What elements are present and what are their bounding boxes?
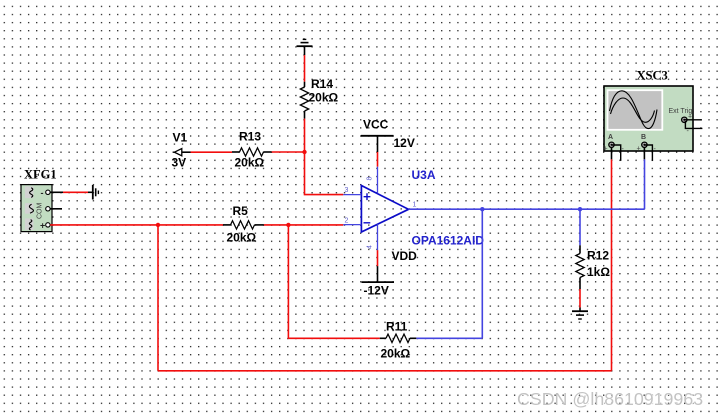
wire VCC red segment [377, 152, 379, 167]
svg-text:1kΩ: 1kΩ [587, 265, 610, 279]
svg-text:B: B [641, 134, 646, 141]
wire output [409, 208, 645, 210]
svg-text:CSDN @lh8610919963: CSDN @lh8610919963 [517, 389, 703, 409]
wire ground to R14 [304, 55, 306, 82]
power VDD [362, 249, 418, 298]
resistor R12 [576, 245, 611, 289]
svg-text:+: + [637, 146, 641, 153]
svg-text:A: A [608, 134, 613, 141]
svg-text:4: 4 [367, 245, 374, 249]
resistor R13 [232, 130, 272, 170]
wire up to scope A [611, 159, 613, 370]
svg-text:U3A: U3A [412, 168, 436, 182]
wire bottom horizontal to scope A [158, 370, 612, 372]
node junction output/R12 [578, 207, 582, 211]
function generator XFG1 [21, 168, 57, 232]
wire VDD red segment [377, 250, 379, 266]
svg-text:V1: V1 [173, 131, 188, 145]
wire scope B stub [643, 147, 645, 159]
wire R12 to ground [579, 289, 581, 308]
wire to R12 [579, 209, 581, 245]
svg-text:VDD: VDD [392, 249, 418, 263]
resistor R5 [223, 204, 264, 245]
wire ext trig hooks [684, 119, 702, 121]
svg-text:R11: R11 [386, 320, 408, 334]
wire V1 to R13 [191, 151, 232, 153]
power VCC [361, 118, 415, 153]
svg-text:20kΩ: 20kΩ [309, 91, 339, 105]
wire XFG1 minus to ground (red part) [63, 191, 88, 193]
wire scope A minus hook [612, 145, 621, 161]
svg-text:2: 2 [345, 218, 349, 225]
svg-text:VCC: VCC [363, 118, 389, 132]
svg-text:R5: R5 [233, 204, 249, 218]
node junction R13/R14 [302, 150, 306, 154]
svg-text:-: - [41, 188, 44, 198]
wire output up to scope B [644, 159, 646, 209]
svg-text:XSC3: XSC3 [637, 69, 668, 83]
ground (below R12) [572, 308, 588, 320]
wire feedback up from R11 [481, 209, 483, 338]
svg-text:R14: R14 [311, 77, 333, 91]
wire R13 to node [272, 151, 305, 153]
svg-text:20kΩ: 20kΩ [381, 347, 411, 361]
svg-text:OPA1612AID: OPA1612AID [412, 234, 485, 248]
ground (top, inverted) [297, 39, 313, 55]
wire scope A stub [611, 147, 613, 159]
wire node down to opamp plus [305, 152, 344, 195]
wire R5 to opamp minus [264, 224, 343, 226]
svg-text:3V: 3V [172, 156, 187, 170]
svg-text:R13: R13 [239, 130, 261, 144]
resistor R11 [380, 320, 417, 361]
svg-text:R12: R12 [587, 249, 609, 263]
voltage source arrow V1 [172, 131, 191, 170]
wire XFG1 minus to ground (black part) [50, 191, 63, 193]
wire feedback down [288, 225, 379, 338]
wire scope B minus hook [644, 145, 652, 161]
svg-text:3: 3 [345, 187, 349, 194]
oscilloscope XSC3 [604, 69, 694, 154]
svg-text:+: + [40, 221, 45, 231]
node junction after R5 [286, 223, 290, 227]
svg-text:12V: 12V [394, 136, 415, 150]
svg-text:20kΩ: 20kΩ [227, 231, 257, 245]
op-amp U3A [343, 167, 484, 250]
wire input down left side [157, 225, 159, 371]
svg-text:8: 8 [367, 177, 374, 181]
node junction output/feedback [480, 207, 484, 211]
node junction at input [156, 223, 160, 227]
resistor R14 [300, 77, 338, 119]
svg-text:XFG1: XFG1 [24, 168, 57, 182]
svg-text:-12V: -12V [364, 284, 389, 298]
wire XFG1 plus output [50, 224, 223, 226]
svg-text:+: + [604, 146, 608, 153]
wire R14 to node [304, 119, 306, 152]
wire XFG1 COM stub [50, 208, 62, 210]
svg-text:20kΩ: 20kΩ [235, 156, 265, 170]
svg-text:1: 1 [413, 202, 417, 209]
ground (rotated, at XFG1 minus) [88, 185, 98, 200]
svg-text:COM: COM [37, 203, 44, 220]
wire R11 right blue [416, 337, 482, 339]
